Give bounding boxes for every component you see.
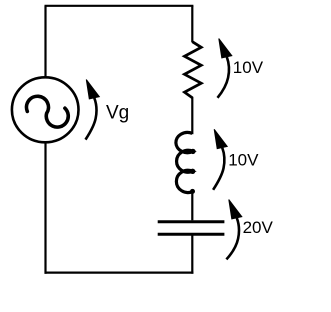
capacitor top plate — [158, 220, 225, 223]
ac voltage source circle — [12, 77, 79, 142]
wire right between resistor and inductor — [191, 97, 193, 134]
inductor — [176, 132, 193, 192]
svg-text:Vg: Vg — [106, 103, 129, 124]
ac source sine symbol — [26, 96, 68, 127]
inductor junction dot 1 — [190, 149, 195, 154]
wire right between inductor and capacitor — [191, 191, 193, 220]
inductor junction dot 3 — [190, 189, 195, 194]
wire right upper — [191, 6, 193, 42]
voltage arrow Vg — [86, 80, 100, 140]
svg-text:10V: 10V — [233, 58, 264, 77]
inductor junction dot 2 — [190, 169, 195, 174]
wire right below capacitor — [191, 236, 193, 274]
wire left lower — [44, 142, 46, 274]
svg-text:10V: 10V — [228, 151, 259, 170]
svg-text:20V: 20V — [243, 218, 274, 237]
voltage arrow inductor 10V — [213, 129, 227, 190]
capacitor bottom plate — [158, 233, 225, 236]
wire top — [45, 5, 194, 7]
wire bottom — [45, 272, 194, 274]
resistor — [185, 42, 202, 98]
voltage arrow capacitor 20V — [226, 200, 241, 260]
voltage arrow resistor 10V — [218, 39, 232, 98]
wire left upper — [44, 6, 46, 78]
